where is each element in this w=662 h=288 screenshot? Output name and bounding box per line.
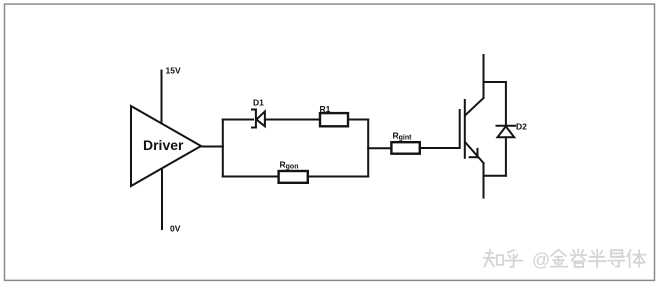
体 (627, 250, 645, 267)
svg-text:R1: R1 (320, 104, 331, 114)
transistor Q1 collector diagonal (465, 98, 484, 116)
diode D2 (497, 82, 516, 176)
wire emitter to D2 (484, 175, 506, 177)
知 (484, 250, 495, 267)
watermark 知乎 @金誉半导体 (484, 249, 646, 269)
半 (588, 250, 605, 268)
wire right rail (367, 120, 369, 177)
svg-text:D1: D1 (253, 98, 264, 108)
乎 (505, 250, 522, 267)
wire collector to D2 (484, 81, 506, 83)
誉 (571, 249, 587, 261)
resistor R1 (320, 113, 348, 126)
wire Rgint to gate (420, 147, 459, 149)
svg-text:D2: D2 (516, 122, 527, 132)
resistor Rgon (279, 171, 308, 183)
svg-text:15V: 15V (166, 66, 181, 76)
wire emitter (483, 163, 485, 198)
svg-text:Driver: Driver (143, 137, 184, 153)
wire Rgon to right rail (308, 176, 368, 178)
op-amp U1 Driver triangle (131, 106, 201, 186)
wire driver output to network (201, 146, 223, 148)
diode D1 (252, 110, 265, 128)
wire R1 to right rail (348, 119, 368, 121)
导 (611, 250, 622, 257)
wire collector (483, 55, 485, 98)
wire D1 to R1 (265, 119, 320, 121)
wire 15V supply (161, 71, 163, 124)
svg-text:0V: 0V (170, 224, 181, 234)
wire top branch left (223, 119, 253, 121)
resistor Rgint (391, 142, 419, 154)
transistor Q1 IGBT gate bar (459, 110, 461, 148)
transistor Q1 emitter diagonal (465, 142, 484, 163)
wire 0V supply (161, 169, 163, 230)
svg-text:@: @ (532, 250, 550, 270)
wire left rail (222, 120, 224, 177)
transistor Q1 emitter arrow (470, 149, 478, 157)
transistor Q1 IGBT body bar (464, 100, 466, 158)
wire right rail to Rgint (368, 147, 391, 149)
wire bottom branch left (223, 176, 279, 178)
金 (551, 250, 568, 267)
